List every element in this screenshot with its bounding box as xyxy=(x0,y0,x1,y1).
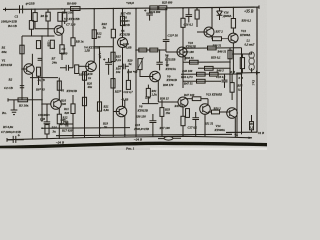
resistor R31v xyxy=(146,88,150,97)
resistor R23 top of x113 xyxy=(111,29,115,38)
node top rail right end tick xyxy=(258,5,260,8)
resistor R47h xyxy=(197,79,206,83)
wire R55 leads xyxy=(231,74,233,100)
wire V10 emitter to R38h xyxy=(211,36,214,39)
resistor R55v xyxy=(230,83,234,93)
wire x162 column xyxy=(161,100,163,135)
capacitor C13s xyxy=(163,40,170,42)
wire bottom rail lower xyxy=(7,136,252,139)
transistor V15 xyxy=(227,108,238,119)
wire R31v leads xyxy=(147,85,149,104)
wire x241.5 output column xyxy=(241,48,243,135)
capacitor C1 polarity plus xyxy=(25,3,28,6)
wire x48 to row36 xyxy=(47,21,49,36)
wire x205 to rail xyxy=(204,114,206,136)
wire V10 collector up xyxy=(211,8,213,28)
resistor R36v xyxy=(181,18,185,27)
wire row y36 xyxy=(22,35,55,37)
paper background xyxy=(0,0,267,150)
resistor R55r box xyxy=(249,122,253,130)
wire R10v to rail xyxy=(46,123,48,126)
wire V14a collector up xyxy=(207,99,209,105)
wire row y77.6 xyxy=(30,77,58,79)
capacitor C3 plus xyxy=(41,119,43,121)
node input jack tick xyxy=(7,98,9,101)
resistor R52v xyxy=(181,116,185,125)
capacitor C8b plus xyxy=(103,58,105,60)
node output tick xyxy=(256,71,258,75)
resistor R10v xyxy=(45,125,49,134)
wire row y103.6 xyxy=(142,103,158,105)
wire x197 below xyxy=(196,19,198,27)
wire x113 top to rail xyxy=(112,9,114,30)
wire V6b collector up xyxy=(124,100,126,107)
wire x166 extend to V8 xyxy=(165,50,167,52)
resistor R40h xyxy=(190,60,199,64)
resistor R45b xyxy=(186,109,190,118)
wire top rail columns x35 x48 xyxy=(34,9,36,12)
wire input row y99.8 xyxy=(8,99,42,101)
capacitor C17 xyxy=(192,112,199,135)
wire x140 down from trimmer xyxy=(139,70,141,77)
transistor V2 xyxy=(54,26,64,36)
transistor V13 xyxy=(178,97,188,107)
wire rail tie segments xyxy=(47,134,235,139)
wire row y98.7 xyxy=(186,98,192,100)
capacitor C10 electrolytic xyxy=(146,9,153,21)
transistor V10 xyxy=(204,27,214,37)
wire R2 to node row36 xyxy=(31,29,33,36)
resistor R24a on rail xyxy=(150,6,158,10)
resistor R12 xyxy=(57,114,61,124)
resistor R15 xyxy=(111,52,115,61)
wire row y128 xyxy=(42,127,130,130)
wire x99.5 column xyxy=(99,47,101,135)
wire x183 column xyxy=(182,8,184,18)
transistor V5 xyxy=(118,38,128,48)
junction dots stageI xyxy=(124,134,236,136)
wire vertical node x31.5 from rail xyxy=(31,9,33,20)
wire vertical x22 down to input row xyxy=(21,36,23,100)
resistor R27 horizontal xyxy=(150,48,158,52)
node input terminal top left xyxy=(5,8,7,12)
resistor R7d xyxy=(63,13,67,22)
wire V13 emitter down xyxy=(182,107,184,116)
wire x128.4 column stub xyxy=(127,69,129,80)
resistor C12 small xyxy=(126,80,130,89)
wire R56 leads xyxy=(241,54,243,73)
wire output row y73 xyxy=(237,72,260,74)
capacitor C3 xyxy=(44,122,51,124)
wire output column right frame xyxy=(226,7,257,132)
wire base row V2 xyxy=(35,28,55,30)
wire V7 emitter down xyxy=(157,81,159,102)
junction dots mid xyxy=(72,8,114,48)
resistor cluster row y74 wire xyxy=(181,73,242,75)
resistor R38h between V10 V11 xyxy=(213,37,222,41)
junction dots left xyxy=(21,8,63,70)
resistor cluster row y62 wire xyxy=(183,61,230,63)
transistor V14a xyxy=(200,104,211,115)
capacitor C16 xyxy=(186,8,193,22)
wire V14a emitter to R50h xyxy=(208,112,211,114)
wire V6b base xyxy=(113,111,119,113)
wire x48 from rail xyxy=(47,9,49,12)
wire R52 to rail xyxy=(182,126,184,137)
resistor R3c xyxy=(20,45,24,54)
resistor R11v xyxy=(71,104,75,114)
resistor R4 xyxy=(36,41,40,49)
wire x233.4 mid down xyxy=(232,54,234,73)
wire row y50 xyxy=(136,49,166,51)
wire V8 base left xyxy=(166,51,180,53)
transistor V1 xyxy=(24,64,34,74)
wire x73 bottom column xyxy=(72,95,74,135)
capacitor C2 bars xyxy=(20,86,24,88)
capacitor C18 xyxy=(222,74,228,88)
resistor R20 xyxy=(82,97,86,105)
resistor R18 xyxy=(82,72,86,80)
resistor R24b on rail xyxy=(159,6,167,10)
wire R9a to row77.6 xyxy=(61,54,63,60)
scan page edge black band xyxy=(0,143,268,147)
wire bottom rail upper xyxy=(56,134,232,135)
resistor R5b xyxy=(46,12,50,21)
resistor R47b horizontal xyxy=(192,97,201,101)
wire x136 column xyxy=(135,9,137,135)
resistor R48b xyxy=(205,66,214,70)
wire R55r leads xyxy=(251,115,253,132)
trimmer R30 xyxy=(138,59,142,70)
wire x230 column xyxy=(229,48,231,88)
junction dots stageH xyxy=(41,99,101,136)
resistor R9b on V3 collector xyxy=(57,81,61,90)
wire row y81.2 xyxy=(183,80,221,82)
capacitor C7 on lower rail xyxy=(7,136,24,143)
capacitor C8b electrolytic xyxy=(105,58,112,75)
transistor V12 xyxy=(228,33,238,43)
wire vertical x42 full xyxy=(41,36,43,122)
wire x237 lower down xyxy=(236,73,238,137)
wire V5 emitter down xyxy=(122,48,124,107)
wire x183 to cluster xyxy=(182,27,184,88)
resistor R48h xyxy=(208,46,217,50)
node C7 terminal tick xyxy=(6,138,8,142)
resistor R33v xyxy=(160,108,164,117)
node bottom rail arrowhead xyxy=(249,137,253,139)
inductor L1 coil xyxy=(249,52,254,70)
capacitor C1 plate right xyxy=(22,5,24,13)
capacitor C4 small near V1 xyxy=(38,58,43,60)
node output terminal arrow xyxy=(256,71,260,74)
wire V2 emitter down xyxy=(61,34,63,45)
wire R12 to rail xyxy=(58,124,60,136)
resistor R45v xyxy=(195,10,199,19)
wire V1 emitter down xyxy=(31,73,33,77)
resistor R56 parallel L1 xyxy=(240,58,244,69)
resistor R49v xyxy=(228,50,232,59)
junction dots stageD xyxy=(122,8,161,68)
wire row y68.3 xyxy=(198,67,230,69)
diode V16 xyxy=(217,8,223,20)
wire x38.5 down xyxy=(38,76,40,85)
resistor R17 xyxy=(120,16,124,25)
resistor R8 on rail horizontal xyxy=(71,7,81,11)
wire x122.5 column from rail xyxy=(122,9,124,38)
resistor R9a on V2 emitter xyxy=(60,45,64,54)
resistor R6 xyxy=(50,40,54,48)
resistor R3 horizontal xyxy=(18,98,28,102)
resistor R21v xyxy=(97,102,101,111)
resistor R39 xyxy=(231,19,235,29)
wire V15 down to rail xyxy=(234,118,236,135)
wire fuse leads xyxy=(158,137,181,139)
node V4 base wire xyxy=(78,65,88,67)
transistor V4 xyxy=(86,61,97,72)
transistor V3 xyxy=(51,99,62,110)
wire x113 column xyxy=(112,38,114,135)
wire x73 from rail down xyxy=(72,10,74,38)
wire x233.4 right column from rail xyxy=(232,7,234,18)
wire V3 collector up xyxy=(58,78,60,100)
wire V13 base row xyxy=(158,101,166,103)
capacitor C13b electrolytic xyxy=(149,114,156,135)
wire V12 emitter down xyxy=(232,43,234,54)
wire x166 below cap xyxy=(165,42,167,51)
capacitor C7 plus xyxy=(18,134,20,136)
resistor cluster row y48 wire xyxy=(183,47,242,49)
wire x47 column xyxy=(46,104,48,122)
wire V4 emitter down to x84.5 xyxy=(85,70,89,135)
wire V1 collector up xyxy=(31,54,33,65)
resistor R10b xyxy=(75,65,79,74)
capacitor C9 horizontal xyxy=(118,64,129,70)
wire x73 to C6 row xyxy=(72,46,74,68)
capacitor C11 xyxy=(156,50,162,70)
wire V4 collector up to rail xyxy=(93,9,95,62)
wire V8 emitter down xyxy=(184,56,186,61)
resistor R26 horizontal xyxy=(139,48,147,52)
wire V10 base left xyxy=(197,31,207,33)
fuse oval on lower rail xyxy=(164,137,173,141)
wire x35 resistor to row28.7 xyxy=(34,21,36,28)
wire V13 base left xyxy=(166,101,178,103)
wire V6b emitter down xyxy=(124,116,126,135)
page below band light strip xyxy=(0,148,267,150)
wire R7d stub xyxy=(64,9,66,24)
wire R39 to V12 xyxy=(232,28,234,33)
wire V7 base row xyxy=(140,76,153,78)
capacitor C1 plate left xyxy=(19,5,21,13)
node V1 base wire xyxy=(22,68,27,70)
wire R50h to V15 base xyxy=(220,111,230,113)
wire top supply rail +35V xyxy=(3,7,259,9)
resistor R22 on collector column xyxy=(92,30,96,39)
transistor V7 xyxy=(150,71,161,82)
wire V3 emitter down xyxy=(58,109,60,115)
capacitor C8 small xyxy=(60,121,73,126)
transistor V8 xyxy=(177,47,187,57)
wire V3 base xyxy=(42,103,51,105)
resistor R2 xyxy=(29,21,33,30)
resistor R7c xyxy=(58,12,62,21)
resistor R8s xyxy=(37,67,41,76)
junction dots stageE xyxy=(165,7,242,75)
capacitor C6 horizontal xyxy=(60,65,73,71)
wire x197 from rail xyxy=(196,8,198,10)
resistor R5a xyxy=(33,13,37,22)
wire V12 base left to R38h xyxy=(222,38,229,40)
paper noise overlay xyxy=(0,0,267,150)
resistor R13 xyxy=(71,38,75,46)
ground symbol input xyxy=(11,100,18,115)
wire L1 top lead xyxy=(233,52,251,73)
junction dots stageG xyxy=(233,53,243,136)
resistor R25s xyxy=(111,79,115,88)
wire V1 emitter column continue xyxy=(31,78,33,140)
resistor R50h xyxy=(212,110,220,114)
resistor R44h xyxy=(197,72,206,76)
capacitor C10 plus xyxy=(144,9,146,11)
resistor R46h xyxy=(210,72,219,76)
wire row y46.8 xyxy=(94,46,113,48)
transistor V6b xyxy=(116,106,127,117)
wire V2 collector to rail xyxy=(61,21,63,26)
wire x166 column xyxy=(165,9,167,40)
